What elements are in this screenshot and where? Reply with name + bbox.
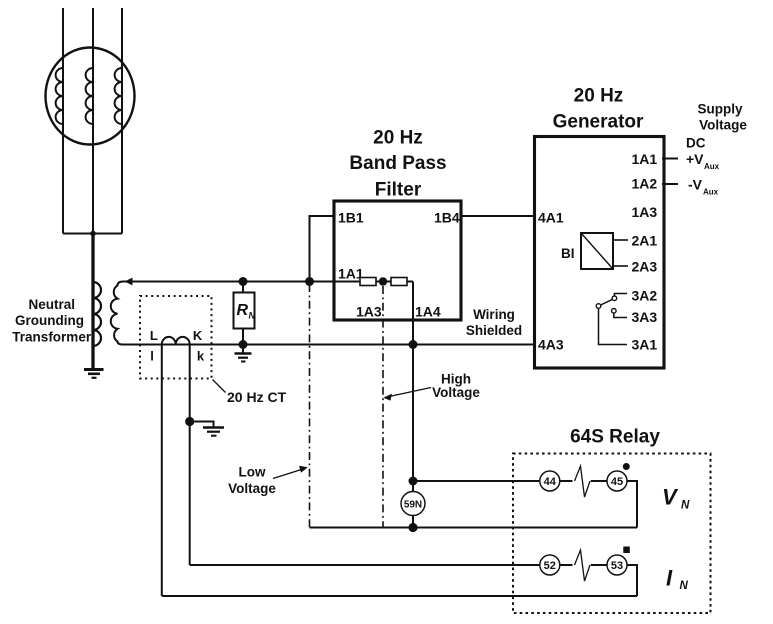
svg-text:53: 53 [611,560,623,572]
zigzag (IN winding break) [575,550,591,581]
wire CT lead k [189,345,191,566]
binary input BI box [581,233,613,269]
polarity arrow on secondary lead [125,278,133,286]
wire 1A4 branch [412,282,414,345]
svg-text:DC: DC [686,136,706,151]
node CT ground junction [185,417,194,426]
svg-text:Aux: Aux [703,188,719,197]
svg-text:20 Hz: 20 Hz [574,86,624,107]
svg-text:Band Pass: Band Pass [349,153,446,174]
contact 3A2 terminal [612,296,617,301]
resistor F2 [391,278,407,286]
wire 59N bottom stub [412,516,414,528]
wire 59N branch [412,345,414,492]
59N element [401,492,425,516]
stator winding phase A [56,68,63,124]
dash-dot boundary (low voltage) [309,284,311,528]
svg-text:V: V [662,485,679,510]
wire R_N top lead [242,282,244,293]
wire neutral down [91,234,94,369]
svg-text:Aux: Aux [704,162,720,171]
zigzag (VN winding break) [575,466,591,497]
svg-text:Grounding: Grounding [15,313,84,328]
wire 52 to zigzag [560,564,572,566]
svg-text:Voltage: Voltage [432,385,480,400]
svg-text:L: L [150,328,158,343]
arrow to low voltage boundary [273,469,303,479]
wire bottom secondary lead (4A3 run) [122,344,535,346]
label Low Voltage [228,465,276,497]
wire 1B1 branch [310,216,335,282]
wire VN top run [413,480,539,482]
stator winding phase B [86,68,93,124]
wire IN bottom run [162,595,637,597]
svg-text:3A1: 3A1 [632,337,658,353]
wire 44 to zigzag [560,480,572,482]
64S Relay dashed box [513,454,711,614]
resistor F1 [360,278,376,286]
relay contact blade [601,299,613,305]
svg-text:I: I [666,566,673,591]
svg-text:Low: Low [239,465,266,480]
label Supply Voltage [697,102,747,133]
generator G1 (machine circle) [46,48,135,145]
contact 3A3 terminal [612,309,617,314]
wire contact common to 3A1 [599,308,628,344]
node neutral tie junction [90,231,96,237]
wire VN bottom run [310,527,638,529]
ground (R_N) [235,345,252,362]
20 Hz Generator box [535,137,665,369]
terminal 44 [540,471,560,491]
svg-text:N: N [680,580,689,592]
wire top secondary lead (to filter 1A1) [122,281,360,283]
node 1B1 branch junction [305,277,314,286]
svg-text:59N: 59N [404,500,422,511]
node 1A4 / 4A3 junction [409,340,418,349]
svg-text:Filter: Filter [375,180,422,201]
transformer T1 secondary winding [111,282,123,345]
wire IN top run [190,564,540,566]
wire BI to 2A1 [613,239,628,241]
pin tick 1A1 [662,158,678,160]
wire BI to 2A3 [613,265,628,267]
label High Voltage [432,372,480,401]
node VN bottom junction [408,523,417,532]
terminal 53 [607,555,627,575]
wire zigzag to 45 [591,480,607,482]
svg-text:BI: BI [561,246,575,261]
svg-text:3A2: 3A2 [632,288,658,304]
svg-text:1A1: 1A1 [632,151,658,167]
ground (transformer neutral) [84,370,104,378]
label generator title [553,86,644,133]
leader 20 Hz CT [213,380,226,393]
svg-text:20 Hz CT: 20 Hz CT [227,389,287,405]
svg-text:k: k [197,349,205,364]
svg-text:1A3: 1A3 [632,204,658,220]
svg-text:4A1: 4A1 [538,210,564,226]
svg-text:N: N [681,500,690,512]
node VN top junction [409,477,418,486]
wire phase A [62,8,64,234]
wire inside filter [360,281,413,283]
svg-text:2A3: 2A3 [632,259,658,275]
svg-text:3A3: 3A3 [632,309,658,325]
relay contact pivot [596,304,601,309]
transformer T1 primary winding [93,282,101,346]
node between filter resistors [379,277,387,285]
label Neutral Grounding Transformer [12,297,92,345]
svg-text:1A4: 1A4 [415,304,441,320]
svg-text:Voltage: Voltage [228,481,276,496]
svg-text:Neutral: Neutral [29,297,76,312]
dash-dot boundary (high voltage) [382,286,384,528]
CT secondary humps [162,337,190,345]
svg-text:1A3: 1A3 [356,304,382,320]
pin tick 1A2 [662,183,678,185]
20 Hz Band Pass Filter box [334,201,461,320]
svg-text:4A3: 4A3 [538,337,564,353]
wire neutral tie [63,233,122,235]
svg-text:1B1: 1B1 [338,210,364,226]
svg-text:+V: +V [686,151,704,167]
stator winding phase C [115,68,122,124]
wire CT lead l [161,345,163,597]
wire phase C [121,8,123,234]
svg-text:R: R [237,302,249,319]
svg-text:1A2: 1A2 [632,176,658,192]
svg-text:20 Hz: 20 Hz [373,128,423,149]
ground (CT) [203,428,224,436]
svg-text:Transformer: Transformer [12,330,92,345]
svg-text:Voltage: Voltage [699,118,747,133]
polarity dot mark [623,463,630,470]
resistor R_N [234,293,255,329]
wire VN return [628,481,638,528]
label filter title [349,128,446,201]
wire zigzag to 53 [591,564,607,566]
svg-text:l: l [150,349,154,364]
svg-text:Supply: Supply [697,102,742,117]
polarity square mark [623,547,630,554]
svg-text:44: 44 [544,476,557,488]
svg-text:45: 45 [611,476,623,488]
svg-text:52: 52 [544,560,556,572]
20 Hz CT dotted box [140,296,212,379]
node R_N top [239,277,248,286]
svg-text:Wiring: Wiring [473,307,515,322]
node R_N bottom [239,340,248,349]
wire to CT ground [190,422,214,428]
svg-text:2A1: 2A1 [632,233,658,249]
svg-text:1B4: 1B4 [434,210,460,226]
svg-text:Shielded: Shielded [466,323,522,338]
wire 1B4 to 4A1 [461,215,535,217]
svg-text:-V: -V [688,177,703,193]
svg-text:64S Relay: 64S Relay [570,427,660,448]
svg-text:N: N [249,311,256,321]
svg-text:Generator: Generator [553,112,644,133]
label Wiring Shielded [466,307,522,338]
wire phase B [92,8,94,234]
wire IN return [628,565,638,596]
wire R_N bottom lead [242,329,244,345]
arrow to high voltage boundary [388,388,431,397]
terminal 45 [607,471,627,491]
svg-text:K: K [193,328,203,343]
terminal 52 [540,555,560,575]
